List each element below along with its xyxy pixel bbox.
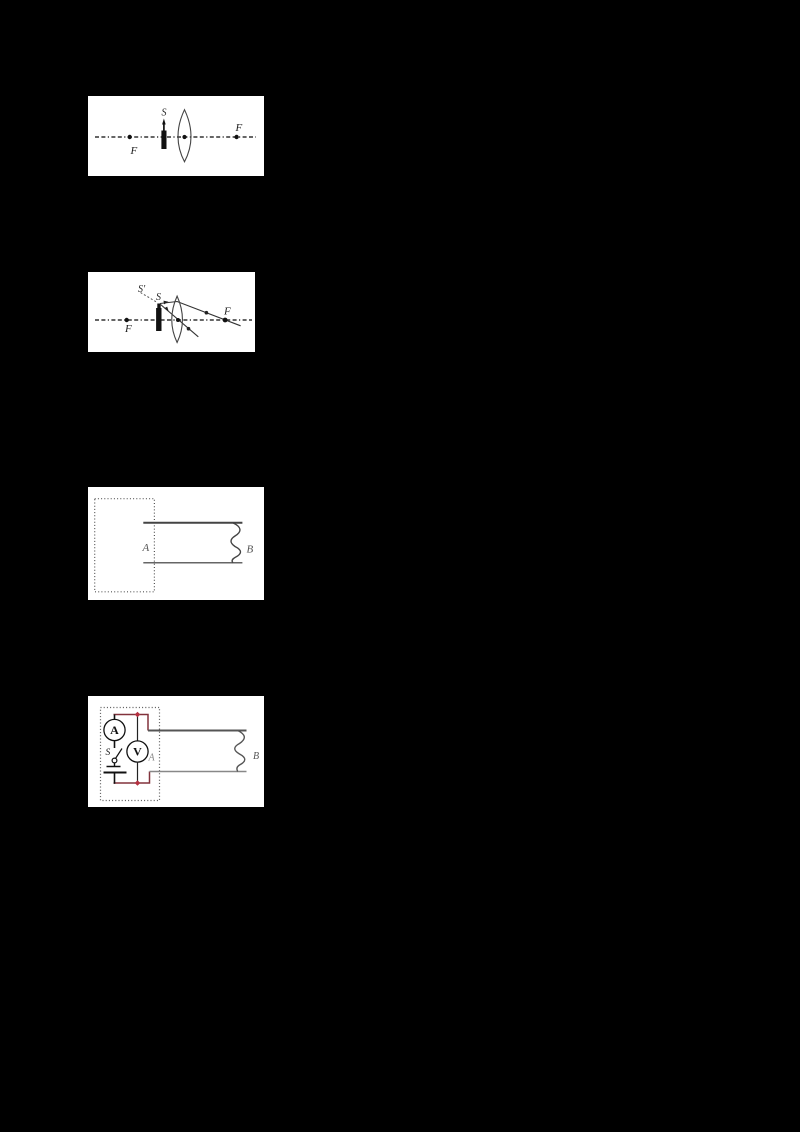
svg-text:B: B [247, 544, 254, 556]
red bottom wire [114, 772, 150, 784]
bottom wire [143, 562, 242, 564]
resistor B squiggle [231, 523, 241, 563]
voltmeter wire bottom [137, 762, 139, 784]
focal point F right [234, 135, 238, 139]
red top wire [114, 715, 149, 731]
focal point F left [125, 318, 129, 322]
voltmeter V [127, 741, 148, 762]
wire battery to bottom [114, 774, 116, 784]
wire ammeter stub top [114, 715, 116, 721]
top wire [143, 522, 242, 524]
svg-text:A: A [110, 723, 119, 737]
diagram 2: lens with rays, virtual image S' [88, 272, 255, 352]
wire ammeter to switch [114, 740, 116, 748]
battery [107, 766, 121, 768]
grey top wire [148, 730, 247, 732]
dotted black box [95, 499, 155, 592]
svg-text:S: S [156, 292, 161, 303]
svg-text:S: S [162, 108, 167, 119]
junction diamond bottom [135, 780, 141, 786]
optical axis [95, 319, 252, 321]
dashed S'-S line [141, 293, 157, 303]
dot on ray2 [187, 327, 191, 331]
ray 1 S to lens to F [160, 302, 241, 326]
lens [172, 296, 183, 342]
svg-text:S: S [106, 748, 111, 758]
svg-text:F: F [223, 306, 231, 318]
grey bottom wire [150, 771, 247, 773]
arrowhead ray2 [164, 307, 169, 312]
ray 2 S through lens center [160, 304, 198, 337]
svg-text:F: F [130, 145, 138, 157]
svg-text:F: F [235, 122, 243, 134]
dot on ray1 [205, 311, 209, 315]
focal point F left [128, 135, 132, 139]
svg-text:A: A [142, 542, 150, 554]
lens center dot [182, 135, 186, 139]
svg-text:B: B [253, 751, 259, 762]
svg-text:V: V [133, 745, 142, 759]
wire switch to battery [114, 763, 116, 767]
resistor B squiggle [235, 731, 245, 772]
optical axis [95, 136, 256, 138]
junction diamond top [135, 712, 141, 718]
focal point F right [223, 318, 228, 323]
dotted box [101, 708, 160, 801]
lens center dot [176, 318, 180, 322]
object S arrow [163, 123, 165, 132]
diagram 1: lens with object S between F and lens [88, 96, 264, 176]
diagram 4: measuring circuit with ammeter voltmeter [88, 696, 264, 807]
diagram 3: black box A with resistor B [88, 487, 264, 600]
svg-text:F: F [124, 323, 132, 335]
lens [178, 110, 191, 162]
svg-text:A: A [148, 753, 156, 764]
arrowhead ray1 [164, 301, 169, 305]
ammeter A [104, 719, 125, 740]
voltmeter wire top [137, 715, 139, 742]
object bar [157, 304, 160, 310]
